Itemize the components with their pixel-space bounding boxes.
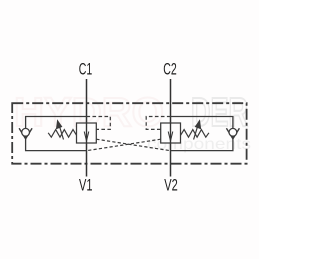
spring left: [48, 130, 76, 138]
relief valve right poppet arrow: [168, 132, 173, 141]
relief valve body right: [161, 123, 181, 143]
check valve CV2 seat: [226, 128, 239, 139]
check valve CV2 ball: [229, 128, 237, 136]
relief valve body left: [77, 123, 97, 143]
port line C1-V1: [86, 79, 88, 177]
pilot staple left (dashed): [87, 117, 111, 130]
port line C2-V2: [170, 79, 172, 177]
spring right: [181, 130, 209, 138]
check valve CV1 seat: [19, 128, 32, 139]
watermark logo letters (faint): [14, 89, 248, 135]
relief valve left flow line: [86, 123, 88, 143]
svg-text:C1: C1: [79, 61, 93, 79]
svg-text:V1: V1: [79, 177, 93, 195]
enclosure dashed boundary: [12, 103, 246, 164]
check-valve loop right (solid lines): [171, 117, 233, 151]
crossed pilot line from left valve to V2 (dashed): [96, 139, 170, 151]
crossed pilot line from right valve to V1 (dashed): [87, 139, 161, 151]
relief valve right flow line: [170, 123, 172, 143]
adjustment arrow right: [194, 119, 202, 139]
svg-text:V2: V2: [164, 177, 178, 195]
check valve CV1 ball: [22, 128, 30, 136]
relief valve left poppet arrow: [84, 132, 89, 141]
svg-text:C2: C2: [163, 61, 177, 79]
check-valve loop left (solid lines): [26, 117, 87, 151]
adjustment arrow left: [56, 119, 64, 139]
pilot staple right (dashed): [146, 117, 170, 130]
